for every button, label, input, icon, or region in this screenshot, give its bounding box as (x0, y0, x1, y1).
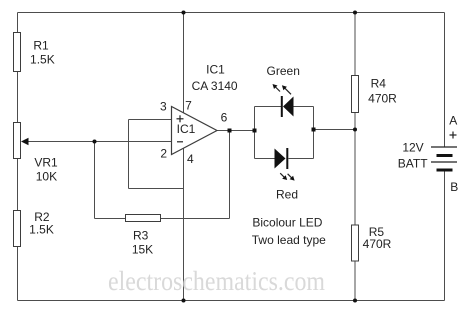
battery plus sign (450, 132, 457, 139)
wire pin 3 input (129, 119, 172, 121)
svg-text:R3: R3 (133, 229, 149, 243)
LED green diode (281, 96, 294, 117)
wire R3 right (161, 218, 230, 220)
svg-text:electroschematics.com: electroschematics.com (108, 266, 325, 296)
svg-text:Red: Red (276, 188, 298, 202)
svg-text:1.5K: 1.5K (29, 223, 54, 237)
svg-text:R1: R1 (33, 39, 49, 53)
wire output (217, 130, 255, 132)
junction bottom R5 (353, 299, 357, 303)
op-amp U1 triangle (172, 107, 218, 155)
svg-text:3: 3 (160, 100, 167, 114)
wire LED bottom branch left (255, 158, 275, 160)
svg-text:IC1: IC1 (206, 63, 225, 77)
wire to R3 left (95, 218, 126, 220)
wire pin 4 (183, 148, 185, 301)
wire LED right vertical (313, 107, 315, 159)
junction node wiper (93, 140, 97, 144)
op-amp minus sign (177, 141, 183, 143)
junction top pin7 (182, 11, 186, 15)
wire LED top branch right (294, 106, 314, 108)
potentiometer VR1 (14, 123, 29, 159)
wire R4 to R5 (354, 113, 356, 226)
wire R2 to bottom rail (17, 247, 19, 301)
svg-text:CA 3140: CA 3140 (192, 79, 238, 93)
wire LED bottom branch right (289, 158, 314, 160)
svg-text:R4: R4 (371, 77, 387, 91)
svg-text:BATT: BATT (398, 157, 428, 171)
wire pin 3 feedback horizontal (129, 188, 184, 190)
svg-text:B: B (450, 180, 458, 194)
wire pin 3 feedback vertical (128, 120, 130, 189)
svg-text:2: 2 (160, 147, 167, 161)
svg-text:IC1: IC1 (177, 122, 196, 136)
wire R4 top (354, 13, 356, 76)
resistor R3 (126, 215, 161, 222)
junction output (228, 129, 232, 133)
LED green arrow 1 (273, 84, 281, 92)
battery BATT plates (431, 147, 457, 170)
resistor R5 (352, 225, 359, 261)
wire R5 bottom (354, 261, 356, 301)
wire VR1 to R2 (17, 159, 19, 211)
resistor R1 (14, 33, 21, 72)
junction bottom pin4 (182, 299, 186, 303)
svg-text:7: 7 (185, 99, 192, 113)
junction divider mid (353, 128, 357, 132)
svg-text:Two lead type: Two lead type (252, 233, 326, 247)
junction top R4 (353, 11, 357, 15)
svg-text:470R: 470R (368, 92, 397, 106)
wire LED top branch left (255, 106, 282, 108)
wire R3 to output (229, 131, 231, 219)
op-amp plus sign (177, 115, 184, 122)
svg-text:4: 4 (187, 152, 194, 166)
svg-text:Bicolour LED: Bicolour LED (252, 216, 322, 230)
wire left column top (17, 13, 19, 33)
svg-text:Green: Green (267, 64, 300, 78)
svg-text:A: A (449, 114, 457, 128)
wire R1 to VR1 (17, 72, 19, 123)
svg-text:VR1: VR1 (34, 156, 58, 170)
wire battery top (444, 13, 446, 148)
junction LED left (253, 129, 257, 133)
wire LED left vertical (254, 107, 256, 159)
wire wiper to pin 2 (27, 141, 172, 143)
LED red diode (275, 148, 289, 169)
wire LED to divider (314, 129, 356, 131)
LED green arrow 2 (282, 85, 291, 94)
svg-text:1.5K: 1.5K (30, 53, 55, 67)
wire bottom rail (18, 300, 445, 302)
svg-text:12V: 12V (402, 141, 423, 155)
resistor R4 (352, 76, 359, 113)
resistor R2 (14, 211, 21, 247)
junction LED right (312, 128, 316, 132)
LED red arrow 2 (288, 174, 295, 181)
LED red arrow 1 (280, 173, 287, 180)
svg-text:10K: 10K (36, 170, 57, 184)
wire node junction down (94, 142, 96, 219)
svg-text:6: 6 (221, 111, 228, 125)
wire battery bottom (444, 170, 446, 301)
wire pin 7 (183, 13, 185, 114)
svg-text:15K: 15K (132, 243, 153, 257)
wire top rail (18, 12, 445, 14)
svg-text:470R: 470R (363, 237, 392, 251)
